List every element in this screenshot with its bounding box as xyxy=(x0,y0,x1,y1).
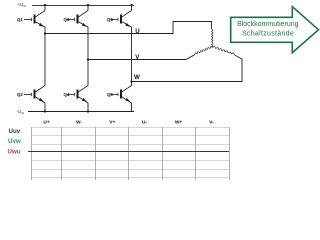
svg-text:Schaltzustände: Schaltzustände xyxy=(242,31,294,38)
svg-text:Q1: Q1 xyxy=(17,17,23,22)
svg-text:W-: W- xyxy=(76,119,82,125)
node V tap xyxy=(87,58,89,60)
node U tap xyxy=(44,32,46,34)
svg-text:Uwu: Uwu xyxy=(8,148,21,155)
motor winding W (lower-right coil) xyxy=(213,46,235,55)
node top rail leg3 xyxy=(130,4,132,6)
transistor Q5 xyxy=(111,11,132,28)
node bottom rail leg1 xyxy=(44,110,46,112)
wire star point xyxy=(212,46,213,48)
junction dots xyxy=(44,4,133,113)
svg-text:V-: V- xyxy=(209,119,214,125)
svg-text:Q3: Q3 xyxy=(64,17,70,22)
svg-text:Uvw: Uvw xyxy=(8,138,21,145)
transistor Q4 xyxy=(67,86,88,104)
svg-text:Uuv: Uuv xyxy=(9,128,21,135)
svg-text:U: U xyxy=(135,28,140,35)
motor winding U (vertical coil) xyxy=(212,29,214,47)
top DC rail xyxy=(32,4,134,6)
svg-text:Q6: Q6 xyxy=(107,92,113,97)
green block arrow xyxy=(231,7,319,53)
wire: leg1 collector stub xyxy=(44,5,46,11)
transistor Q6 xyxy=(111,86,132,104)
node bottom rail leg2 xyxy=(87,110,89,112)
wire: leg1 midsection xyxy=(44,27,46,86)
wire: leg3 bottom xyxy=(131,103,133,112)
svg-text:U-: U- xyxy=(142,119,147,125)
dark axis line (Uwu zero axis) xyxy=(28,151,229,153)
wire: phase V output xyxy=(88,55,195,60)
svg-text:-Udc: -Udc xyxy=(17,109,25,115)
svg-text:Blockkommutierung: Blockkommutierung xyxy=(237,21,299,28)
node top rail leg2 xyxy=(87,4,89,6)
wire: leg2 collector stub xyxy=(87,5,89,11)
motor winding V (lower-left coil) xyxy=(195,46,213,54)
wire: leg2 midsection xyxy=(87,27,89,86)
table grid light horizontal lines xyxy=(32,128,230,178)
wire: phase W output xyxy=(132,55,243,82)
transistor Q2 xyxy=(24,86,45,104)
wire: phase U output xyxy=(45,22,212,34)
svg-text:W+: W+ xyxy=(175,119,183,125)
svg-text:Q5: Q5 xyxy=(107,17,113,22)
table column headers xyxy=(43,119,214,125)
svg-text:U+: U+ xyxy=(43,119,49,125)
svg-text:Q2: Q2 xyxy=(17,92,23,97)
wire: leg3 midsection xyxy=(131,27,133,86)
transistor Q1 xyxy=(24,11,45,28)
node W tap xyxy=(130,80,132,82)
wire: leg3 collector stub xyxy=(131,5,133,11)
svg-text:W: W xyxy=(134,74,140,81)
wire: leg2 bottom xyxy=(87,103,89,112)
bottom DC rail xyxy=(28,111,134,113)
svg-text:Q4: Q4 xyxy=(64,92,70,97)
transistor Q3 xyxy=(67,11,88,28)
svg-text:+Udc: +Udc xyxy=(18,2,27,8)
svg-text:V+: V+ xyxy=(109,119,115,125)
table grid vertical lines xyxy=(32,127,230,180)
node top rail leg1 xyxy=(44,4,46,6)
wire: leg1 bottom xyxy=(44,103,46,112)
